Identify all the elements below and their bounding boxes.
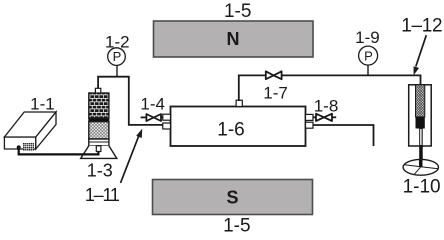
svg-text:1-5: 1-5 [223,216,250,237]
svg-text:1–11: 1–11 [85,185,120,205]
svg-text:1-6: 1-6 [217,120,244,141]
svg-text:1-2: 1-2 [105,32,130,51]
dish (1-10) [403,159,438,175]
port stub top (1-6) [236,100,242,106]
svg-text:N: N [227,29,240,49]
wire: power lead from 1-1 to 1-3 base [17,145,99,154]
reaction chamber 1-6 [171,107,306,147]
wire: chamber lower-right outlet [313,125,374,146]
vent grille (1-1) [23,143,34,151]
svg-text:1-5: 1-5 [224,1,251,22]
collector tube 1-10 [409,85,432,167]
svg-text:1-9: 1-9 [355,28,380,47]
wire: column 1-3 top to gauge tee to chamber lower-left port [98,77,163,125]
svg-text:1-1: 1-1 [30,95,55,114]
svg-text:1-4: 1-4 [140,94,165,113]
svg-text:1-3: 1-3 [87,161,113,181]
svg-text:1-8: 1-8 [314,97,339,116]
arrow 1-11 [121,129,143,183]
wire: chamber top port via valve 1-7 and gauge 1-9 to collector 1-10 [239,75,421,101]
valve 1-8 [313,114,336,121]
funnel base (1-3) [81,146,117,159]
port stub right upper (1-6) [306,114,314,120]
port stub left upper (1-6) [163,114,171,120]
pressure gauge 1-2 [108,48,126,77]
valve 1-7 [266,71,282,79]
arrow 1-12 [414,35,427,75]
port stub left lower (1-6) [163,123,171,129]
packed column 1-3 [89,93,109,146]
column top port (1-3) [95,88,100,93]
svg-text:P: P [364,48,373,63]
svg-text:S: S [226,188,238,208]
valve 1-4 [141,114,164,121]
port stub right lower (1-6) [306,122,314,128]
svg-text:1-7: 1-7 [263,84,288,103]
svg-text:1–12: 1–12 [401,16,442,37]
magnet N pole 1-5 [154,21,314,57]
pressure gauge 1-9 [359,46,378,75]
base connector (1-3) [96,146,101,152]
magnet S pole 1-5 [153,180,313,215]
svg-text:1-10: 1-10 [403,177,441,198]
power supply box 1-1 [4,112,56,149]
